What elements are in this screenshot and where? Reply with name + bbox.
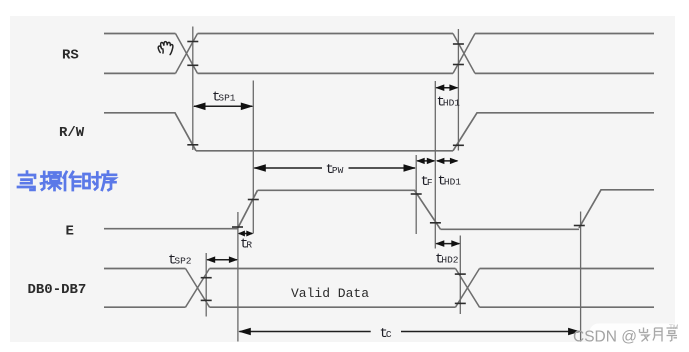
watermark background box xyxy=(590,324,684,345)
hand cursor icon xyxy=(158,42,173,55)
dimension tHD1 middle arrow xyxy=(436,158,459,164)
dimension extension line V2 at E first rise top xyxy=(252,81,254,234)
dimension extension line V7 at RS crossover 2 xyxy=(457,29,459,151)
svg-text:R/W: R/W xyxy=(59,125,85,141)
signal RS high/low rails left of crossover 1 xyxy=(104,34,176,74)
char 时 xyxy=(84,173,101,190)
signal DB0-DB7 crossover 1 xyxy=(186,269,210,308)
svg-text:tHD1: tHD1 xyxy=(438,174,462,190)
svg-text:tR: tR xyxy=(240,237,252,253)
signal E second rising edge and right high rail xyxy=(579,190,654,228)
signal DB0-DB7 rails right of crossover 2 xyxy=(480,269,655,308)
signal R/W rising edge and right high rail xyxy=(453,113,654,151)
watermark 岁月哥 (drawn strokes) xyxy=(640,328,678,342)
svg-text:CSDN @: CSDN @ xyxy=(573,329,637,346)
dimension tR arrow xyxy=(238,231,253,237)
svg-text:tPW: tPW xyxy=(326,162,344,178)
dimension tSP2 arrow xyxy=(206,256,238,263)
signal DB0-DB7 rails left of crossover 1 xyxy=(104,269,186,308)
signal RS crossover 2 xyxy=(453,34,475,74)
char 写 xyxy=(18,172,35,190)
dimension extension line V9 at E second rise xyxy=(580,212,582,342)
svg-text:tSP2: tSP2 xyxy=(168,253,192,269)
signal R/W high rail and falling edge xyxy=(104,113,196,151)
svg-text:RS: RS xyxy=(62,48,79,64)
signal DB0-DB7 valid data rails xyxy=(210,269,456,308)
svg-text:tF: tF xyxy=(421,174,433,190)
dimension tHD2 arrow xyxy=(435,240,460,247)
dimension tSP1 arrow xyxy=(193,103,253,111)
char 哥 xyxy=(667,328,678,341)
signal RS rails right of crossover 2 xyxy=(475,34,654,74)
char 操 xyxy=(41,172,61,190)
svg-text:tSP1: tSP1 xyxy=(212,90,236,106)
signal RS rails between crossovers xyxy=(198,34,454,74)
dimension tHD1 top arrow xyxy=(435,84,458,91)
signal E high pulse xyxy=(258,190,441,229)
dimension extension line V8 at DB crossover 2 xyxy=(459,236,461,315)
dimension extension line V5 at E fall start xyxy=(415,155,417,234)
dimension tPW arrow xyxy=(253,164,416,172)
dimension extension line V6 at E fall foot xyxy=(434,81,436,249)
svg-text:tC: tC xyxy=(380,326,392,342)
tick marks on transitions xyxy=(187,42,585,304)
signal E low rail and first rising edge xyxy=(104,190,258,228)
svg-text:E: E xyxy=(66,223,74,239)
dimension extension line V4 at DB crossover 1 xyxy=(205,253,207,317)
dimension extension line V3 at E first rise foot xyxy=(237,212,239,342)
svg-text:Valid Data: Valid Data xyxy=(291,286,369,301)
svg-text:tHD1: tHD1 xyxy=(437,95,461,111)
char 岁 xyxy=(640,328,650,342)
char 作 xyxy=(64,172,81,190)
signal E low between pulses xyxy=(441,228,580,230)
char 序 xyxy=(102,172,116,191)
signal DB0-DB7 crossover 2 xyxy=(456,269,480,308)
svg-text:DB0-DB7: DB0-DB7 xyxy=(28,282,87,298)
dimension tF arrow xyxy=(416,158,435,164)
dimension tC arrow xyxy=(238,328,580,336)
dimension extension line V1 at RS crossover 1 xyxy=(192,27,194,151)
title 写操作时序 (blue, drawn strokes) xyxy=(18,172,116,191)
svg-text:tHD2: tHD2 xyxy=(435,252,459,268)
signal R/W low rail xyxy=(196,150,453,152)
char 月 xyxy=(653,328,662,342)
signal RS crossover 1 xyxy=(176,34,198,74)
